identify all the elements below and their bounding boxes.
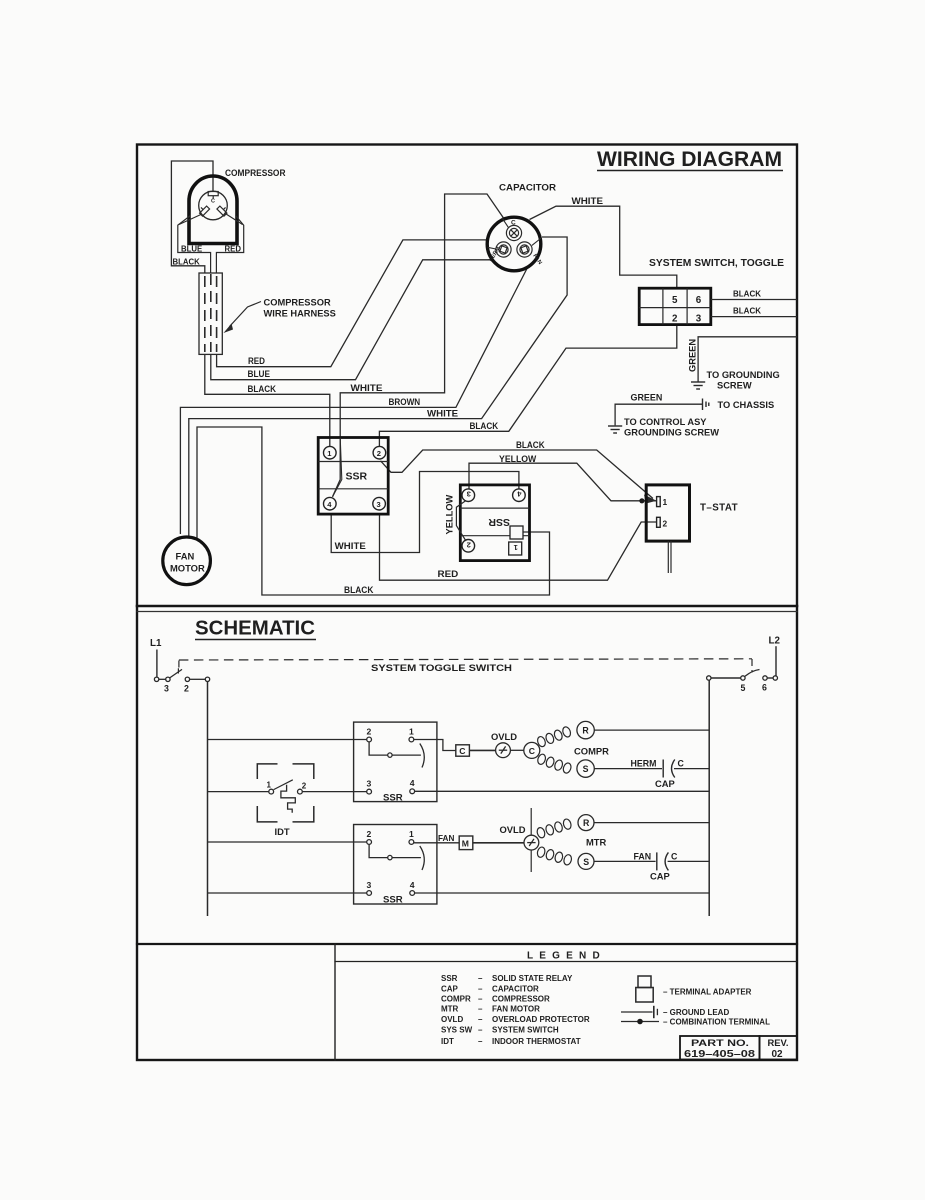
svg-text:RED: RED bbox=[438, 569, 459, 579]
svg-text:619–405–08: 619–405–08 bbox=[684, 1049, 756, 1060]
svg-text:CAPACITOR: CAPACITOR bbox=[499, 183, 556, 194]
svg-text:CAPACITOR: CAPACITOR bbox=[492, 985, 539, 994]
svg-text:R: R bbox=[583, 818, 590, 828]
svg-text:SSR: SSR bbox=[488, 516, 510, 528]
arrowhead at T-STAT pin 1 bbox=[644, 495, 657, 504]
svg-text:3: 3 bbox=[467, 490, 471, 499]
combination terminal symbol bbox=[621, 1021, 659, 1023]
compressor common terminal C bbox=[524, 742, 540, 758]
wire BLACK switch pin6 to frame bbox=[711, 299, 797, 301]
svg-text:6: 6 bbox=[762, 683, 767, 693]
SSR4 pin 3 bbox=[367, 891, 372, 896]
wire BLUE harness to capacitor bbox=[211, 260, 491, 380]
svg-text:– GROUND LEAD: – GROUND LEAD bbox=[663, 1008, 729, 1017]
svg-text:TO CONTROL ASY: TO CONTROL ASY bbox=[624, 417, 707, 427]
capacitor terminal radial leads bbox=[488, 218, 542, 249]
svg-text:COMPRESSOR: COMPRESSOR bbox=[492, 995, 550, 1004]
IDT switch blade bbox=[274, 780, 293, 790]
wire fan cap to bus bbox=[668, 860, 710, 862]
svg-text:YELLOW: YELLOW bbox=[499, 454, 536, 464]
svg-text:YELLOW: YELLOW bbox=[445, 495, 455, 535]
compressor left terminal bbox=[197, 204, 209, 216]
svg-text:–: – bbox=[478, 974, 483, 983]
svg-text:BLACK: BLACK bbox=[173, 258, 201, 267]
wire fan S to fan cap bbox=[594, 860, 656, 862]
svg-text:SCHEMATIC: SCHEMATIC bbox=[195, 617, 315, 640]
wire SSR3 pin4 to bus bbox=[414, 790, 709, 792]
svg-text:BLUE: BLUE bbox=[248, 369, 271, 379]
svg-text:TO GROUNDING: TO GROUNDING bbox=[707, 370, 780, 380]
svg-text:1: 1 bbox=[409, 727, 414, 737]
svg-text:2: 2 bbox=[663, 518, 668, 528]
svg-text:4: 4 bbox=[410, 880, 415, 890]
svg-text:–: – bbox=[478, 1026, 483, 1035]
label TO CONTROL ASY GROUNDING SCREW bbox=[624, 417, 719, 438]
SSR4 pin 2 bbox=[367, 840, 372, 845]
SSR1 pin 2 bbox=[373, 446, 386, 459]
SSR2 aux terminal block bbox=[510, 526, 523, 539]
wire BLACK SSR1 pin2 to system switch bbox=[379, 325, 676, 447]
fan R terminal bbox=[578, 815, 594, 831]
L2 switch blade bbox=[745, 670, 760, 677]
SSR relay U2 (rotated) bbox=[460, 485, 529, 561]
svg-text:WHITE: WHITE bbox=[335, 541, 366, 551]
svg-text:GREEN: GREEN bbox=[688, 339, 698, 372]
svg-text:3: 3 bbox=[377, 500, 381, 509]
SSR relay U4 (schematic lower) bbox=[354, 825, 437, 905]
svg-text:MTR: MTR bbox=[586, 837, 607, 848]
wire bus to SSR3 pin2 bbox=[208, 739, 368, 741]
L1 switch terminals bbox=[154, 677, 209, 681]
svg-text:CAP: CAP bbox=[650, 871, 670, 882]
wire GREEN to grounding screw bbox=[698, 337, 797, 382]
svg-text:1: 1 bbox=[267, 781, 272, 790]
ground symbol (grounding screw) bbox=[691, 382, 705, 389]
terminal box M bbox=[459, 836, 473, 850]
svg-text:FAN MOTOR: FAN MOTOR bbox=[492, 1005, 540, 1014]
capacitor HERM terminal bbox=[496, 242, 511, 257]
left bus wire bbox=[207, 682, 209, 917]
svg-text:BLACK: BLACK bbox=[248, 384, 277, 394]
SSR3 pin 1 bbox=[409, 737, 414, 742]
capacitor C terminal bbox=[506, 225, 521, 240]
svg-text:CAP: CAP bbox=[655, 778, 675, 789]
capacitor HERM CAP bbox=[663, 760, 675, 778]
svg-text:BLACK: BLACK bbox=[344, 585, 374, 595]
wire bus to SSR4 pin2 bbox=[208, 841, 368, 843]
svg-text:COMPRESSOR: COMPRESSOR bbox=[225, 168, 286, 179]
svg-text:PART NO.: PART NO. bbox=[691, 1037, 749, 1048]
svg-text:FAN: FAN bbox=[634, 852, 652, 862]
right bus wire bbox=[708, 680, 710, 916]
svg-text:3: 3 bbox=[696, 314, 702, 325]
compressor shroud left bbox=[178, 216, 211, 274]
SSR1 pin 1 bbox=[324, 446, 337, 459]
L2 switch terminals bbox=[707, 676, 778, 680]
L2 switch links bbox=[711, 677, 773, 679]
L1 switch links bbox=[159, 678, 206, 680]
SSR2 pin 2 bbox=[462, 540, 475, 553]
fan run winding bbox=[536, 818, 572, 839]
SSR4 contact bbox=[369, 845, 424, 871]
wire M box to OVLD2 bbox=[473, 842, 524, 844]
wire IDT pin2 to SSR3 pin3 bbox=[303, 791, 367, 793]
ground symbol (control asy) bbox=[608, 426, 622, 433]
svg-text:–: – bbox=[478, 995, 483, 1004]
SSR2 pin3-pin2 link bbox=[456, 501, 466, 542]
svg-text:SYS SW: SYS SW bbox=[441, 1026, 473, 1035]
svg-text:GROUNDING SCREW: GROUNDING SCREW bbox=[624, 428, 719, 438]
compressor terminal lead right bbox=[225, 213, 243, 225]
svg-text:R: R bbox=[582, 726, 589, 736]
svg-text:– TERMINAL ADAPTER: – TERMINAL ADAPTER bbox=[663, 988, 752, 997]
SSR3 pin 3 bbox=[367, 789, 372, 794]
wire OVLD to compressor C bbox=[510, 749, 523, 751]
svg-text:SOLID STATE RELAY: SOLID STATE RELAY bbox=[492, 974, 573, 983]
svg-text:1: 1 bbox=[409, 829, 414, 839]
ground lead symbol bbox=[621, 1006, 657, 1018]
svg-text:CAP: CAP bbox=[441, 985, 459, 994]
SSR relay U3 (schematic upper) bbox=[354, 722, 437, 802]
svg-text:RED: RED bbox=[225, 245, 242, 254]
svg-text:S: S bbox=[583, 857, 589, 867]
compressor C terminal bbox=[208, 192, 218, 199]
legend band top line bbox=[137, 943, 797, 945]
SSR3 pin 4 bbox=[410, 789, 415, 794]
fan S terminal bbox=[578, 853, 594, 869]
svg-text:2: 2 bbox=[302, 782, 307, 791]
svg-text:SCREW: SCREW bbox=[717, 381, 752, 391]
wire R to bus bbox=[594, 729, 709, 731]
svg-text:COMPR: COMPR bbox=[574, 746, 609, 757]
svg-text:C: C bbox=[671, 852, 678, 862]
SSR4 pin 1 bbox=[409, 840, 414, 845]
wire SSR3 pin1 to C box bbox=[414, 740, 456, 751]
wire RED SSR1 pin3 to T-STAT pin 2 bbox=[380, 514, 657, 580]
svg-text:S: S bbox=[583, 764, 589, 774]
wire BLACK fan motor loop to SSR2 bbox=[197, 427, 550, 595]
svg-text:3: 3 bbox=[367, 880, 372, 890]
compressor run winding bbox=[536, 726, 572, 748]
wire WHITE capacitor to system switch bbox=[530, 206, 677, 288]
svg-text:–: – bbox=[478, 1005, 483, 1014]
svg-text:SYSTEM SWITCH: SYSTEM SWITCH bbox=[492, 1026, 559, 1035]
compressor terminal circle bbox=[199, 191, 228, 220]
svg-text:BLACK: BLACK bbox=[733, 306, 762, 316]
svg-text:C: C bbox=[678, 759, 685, 769]
svg-text:C: C bbox=[511, 220, 516, 227]
compressor R terminal bbox=[577, 721, 594, 738]
toggle switch linkage (dashed) bbox=[179, 659, 752, 673]
svg-text:HERM: HERM bbox=[631, 759, 657, 769]
wire BLACK SSR1 pin2 to T-STAT pin 1 bbox=[381, 450, 654, 499]
L1 blade linkage tick bbox=[177, 668, 179, 673]
svg-text:GREEN: GREEN bbox=[631, 393, 663, 403]
svg-text:C: C bbox=[529, 746, 535, 756]
svg-text:02: 02 bbox=[772, 1049, 784, 1060]
svg-text:OVLD: OVLD bbox=[500, 824, 526, 835]
svg-text:IDT: IDT bbox=[275, 826, 290, 837]
compressor S terminal bbox=[577, 760, 594, 777]
svg-text:5: 5 bbox=[741, 683, 746, 693]
SSR3 contact bbox=[369, 742, 424, 768]
svg-text:SYSTEM TOGGLE SWITCH: SYSTEM TOGGLE SWITCH bbox=[371, 662, 512, 673]
title WIRING DIAGRAM bbox=[597, 147, 783, 171]
svg-text:INDOOR THERMOSTAT: INDOOR THERMOSTAT bbox=[492, 1037, 581, 1046]
svg-text:OVLD: OVLD bbox=[441, 1015, 463, 1024]
overload protector OVLD2 bbox=[524, 835, 539, 850]
svg-text:3: 3 bbox=[164, 684, 169, 694]
capacitor FAN CAP bbox=[657, 852, 669, 870]
chassis connector symbol bbox=[703, 399, 709, 411]
compressor start winding bbox=[537, 753, 573, 774]
svg-text:1: 1 bbox=[663, 497, 668, 507]
wire YELLOW SSR2 pin3 to T-STAT pin 1 bbox=[469, 463, 657, 501]
L1 switch blade bbox=[170, 669, 182, 678]
wire compressor C to harness (black loop) bbox=[171, 161, 213, 273]
svg-text:LEGEND: LEGEND bbox=[527, 951, 606, 962]
svg-text:MOTOR: MOTOR bbox=[170, 563, 205, 574]
capacitor C1 bbox=[487, 217, 541, 271]
svg-text:BLACK: BLACK bbox=[516, 440, 545, 450]
svg-text:2: 2 bbox=[672, 314, 678, 325]
harness leader label bbox=[224, 298, 336, 334]
wire WHITE fan motor to capacitor FAN bbox=[189, 237, 567, 538]
svg-text:RED: RED bbox=[248, 356, 265, 366]
svg-text:SSR: SSR bbox=[383, 895, 403, 906]
system switch S1 bbox=[639, 288, 711, 324]
svg-text:WIRING DIAGRAM: WIRING DIAGRAM bbox=[597, 147, 782, 171]
SSR1 pin 4 bbox=[324, 497, 337, 510]
section divider line bbox=[137, 605, 797, 608]
SSR1 pin 3 bbox=[373, 497, 386, 510]
svg-text:OVLD: OVLD bbox=[491, 731, 517, 742]
svg-text:5: 5 bbox=[672, 295, 678, 306]
wire S to herm cap bbox=[594, 768, 662, 770]
terminal box C bbox=[456, 745, 470, 756]
fan motor M1 bbox=[163, 537, 211, 585]
svg-text:2: 2 bbox=[367, 829, 372, 839]
fan start winding bbox=[536, 846, 572, 866]
svg-text:FAN: FAN bbox=[438, 834, 454, 843]
OVLD2 link line bbox=[530, 808, 532, 872]
compressor shell (dome) bbox=[189, 176, 237, 244]
capacitor FAN terminal bbox=[517, 242, 532, 257]
junction dot at T-STAT pin 1 bbox=[639, 498, 644, 503]
wire BLACK harness to SSR1 pin 1 bbox=[205, 354, 330, 446]
SSR relay U1 bbox=[318, 438, 388, 515]
IDT thermostat (dashed box) bbox=[257, 764, 314, 822]
compressor shroud right bbox=[216, 216, 243, 274]
svg-text:IDT: IDT bbox=[441, 1037, 454, 1046]
title SCHEMATIC bbox=[195, 617, 316, 640]
wire L1 lead bbox=[156, 650, 158, 678]
legend title underline bbox=[335, 961, 797, 963]
svg-text:– COMBINATION TERMINAL: – COMBINATION TERMINAL bbox=[663, 1018, 770, 1027]
svg-text:SSR: SSR bbox=[383, 793, 403, 804]
wire L2 lead bbox=[775, 646, 777, 676]
wire SSR4 pin4 to bus bbox=[414, 892, 709, 894]
wire RED harness to capacitor bbox=[217, 240, 488, 367]
svg-text:–: – bbox=[478, 1037, 483, 1046]
svg-text:SSR: SSR bbox=[346, 471, 368, 483]
svg-text:WHITE: WHITE bbox=[351, 383, 383, 393]
svg-text:3: 3 bbox=[367, 779, 372, 789]
wire BLACK switch pin3 to frame bbox=[711, 316, 797, 318]
compressor right terminal bbox=[217, 204, 229, 216]
terminal adapter symbol bbox=[636, 976, 653, 1002]
SSR2 pin 3 bbox=[462, 489, 475, 502]
wire BROWN fan motor to capacitor bbox=[180, 269, 527, 535]
label TO GROUNDING SCREW bbox=[707, 370, 780, 391]
outer drawing frame bbox=[137, 145, 797, 1061]
overload protector OVLD1 bbox=[496, 743, 511, 758]
svg-text:L1: L1 bbox=[150, 638, 162, 649]
wire WHITE capacitor C to SSR1 pin 4 bbox=[333, 194, 504, 497]
svg-text:M: M bbox=[462, 839, 469, 849]
wire bus to SSR4 pin3 bbox=[208, 892, 368, 894]
SSR3 pin 2 bbox=[367, 737, 372, 742]
wire bus to IDT pin1 bbox=[208, 791, 269, 793]
svg-text:WIRE HARNESS: WIRE HARNESS bbox=[264, 309, 336, 319]
SSR2 pin 4 bbox=[513, 489, 526, 502]
svg-text:T–STAT: T–STAT bbox=[700, 503, 738, 514]
svg-text:4: 4 bbox=[410, 778, 415, 788]
svg-text:–: – bbox=[478, 1015, 483, 1024]
svg-text:BLUE: BLUE bbox=[181, 245, 202, 254]
svg-text:WHITE: WHITE bbox=[572, 196, 604, 206]
svg-text:COMPR: COMPR bbox=[441, 995, 471, 1004]
svg-text:MTR: MTR bbox=[441, 1005, 459, 1014]
svg-text:2: 2 bbox=[377, 449, 381, 458]
IDT pin 1 bbox=[269, 789, 274, 794]
wire herm cap to bus bbox=[674, 768, 709, 770]
svg-text:–: – bbox=[478, 985, 483, 994]
wire SSR4 pin1 to M box bbox=[414, 842, 459, 844]
svg-text:COMPRESSOR: COMPRESSOR bbox=[264, 298, 331, 308]
svg-text:C: C bbox=[211, 199, 215, 205]
SSR4 pin 4 bbox=[410, 891, 415, 896]
svg-text:SYSTEM SWITCH, TOGGLE: SYSTEM SWITCH, TOGGLE bbox=[649, 258, 784, 269]
wire C box to OVLD bbox=[469, 749, 495, 751]
wire fan R to bus bbox=[594, 822, 709, 824]
svg-text:REV.: REV. bbox=[768, 1037, 789, 1048]
wire WHITE SSR1 pin4 to SSR2 pin4 bbox=[331, 472, 519, 553]
legend box divider bbox=[334, 944, 336, 1060]
T-STAT S2 bbox=[646, 485, 689, 541]
compressor wire harness bbox=[199, 273, 222, 354]
svg-text:L2: L2 bbox=[769, 636, 781, 647]
T-STAT lead stub bbox=[668, 541, 671, 573]
wire GREEN to chassis bbox=[615, 404, 702, 425]
svg-text:2: 2 bbox=[467, 540, 471, 549]
svg-text:OVERLOAD PROTECTOR: OVERLOAD PROTECTOR bbox=[492, 1015, 590, 1024]
legend items bbox=[441, 974, 590, 1046]
svg-text:FAN: FAN bbox=[176, 551, 195, 562]
svg-text:BLACK: BLACK bbox=[733, 289, 762, 299]
svg-text:C: C bbox=[459, 746, 465, 756]
svg-text:BLACK: BLACK bbox=[470, 421, 499, 431]
svg-text:6: 6 bbox=[696, 295, 702, 306]
svg-text:SSR: SSR bbox=[441, 974, 458, 983]
svg-text:2: 2 bbox=[367, 727, 372, 737]
svg-text:WHITE: WHITE bbox=[427, 408, 458, 418]
compressor terminal lead left bbox=[179, 214, 202, 225]
IDT pin 2 bbox=[298, 789, 303, 794]
svg-text:TO CHASSIS: TO CHASSIS bbox=[718, 400, 775, 410]
svg-text:BROWN: BROWN bbox=[389, 397, 421, 407]
IDT bimetal element bbox=[281, 785, 295, 813]
part number block bbox=[680, 1036, 797, 1060]
svg-text:2: 2 bbox=[184, 684, 189, 694]
SSR2 pin 1 (square) bbox=[509, 542, 522, 555]
